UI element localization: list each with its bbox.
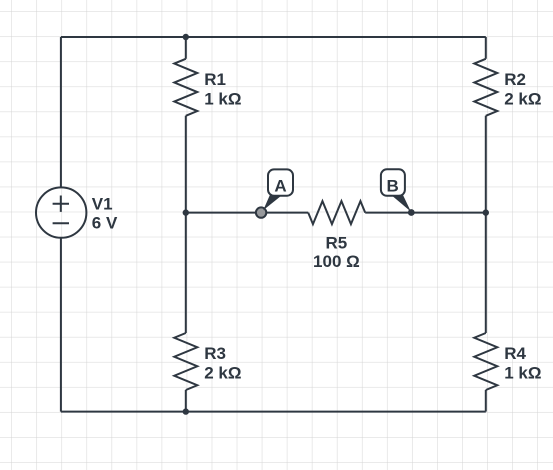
wire middle rail left segment (186, 212, 308, 214)
junction dot top (left branch / top rail) (183, 34, 189, 40)
node A callout box (268, 169, 293, 195)
svg-text:2 kΩ: 2 kΩ (504, 90, 541, 109)
resistor R5 (308, 201, 365, 224)
V1 minus sign (53, 222, 69, 224)
svg-text:1 kΩ: 1 kΩ (204, 90, 241, 109)
wire left branch lower lead R3 (185, 390, 187, 412)
resistor R3 (174, 333, 197, 390)
node B callout box (381, 169, 405, 196)
svg-text:R1: R1 (204, 70, 226, 89)
node A callout tail (263, 194, 282, 210)
node A marker (gray terminal dot) (256, 207, 266, 217)
svg-text:6 V: 6 V (92, 213, 118, 232)
junction dot bottom (left branch / bottom rail) (183, 408, 189, 414)
wire right branch middle (R2 to middle rail to R4) (485, 116, 487, 333)
node B callout tail (392, 195, 411, 212)
svg-text:100 Ω: 100 Ω (313, 252, 360, 271)
svg-text:B: B (387, 176, 399, 195)
wire right branch upper lead R2 (485, 37, 487, 59)
resistor R2 (474, 59, 497, 116)
wire left branch middle (R1 to middle rail to R3) (185, 116, 187, 333)
V1 plus sign (53, 196, 69, 212)
svg-text:R4: R4 (504, 344, 526, 363)
svg-text:1 kΩ: 1 kΩ (504, 364, 541, 383)
voltage source V1 circle (36, 187, 86, 237)
wire right branch lower lead R4 (485, 390, 487, 412)
svg-text:2 kΩ: 2 kΩ (204, 364, 241, 383)
svg-text:R3: R3 (204, 344, 226, 363)
wire top rail (61, 36, 486, 38)
junction dot middle-right (right branch / middle rail) (483, 209, 489, 215)
svg-text:R2: R2 (504, 70, 526, 89)
resistor R4 (474, 333, 497, 390)
resistor R1 (174, 59, 197, 116)
wire left lower (V1 bottom to bottom rail) (60, 238, 62, 412)
wire middle rail right segment (365, 212, 486, 214)
svg-text:V1: V1 (92, 195, 113, 214)
wire left upper (top rail to V1 top) (60, 37, 62, 187)
wire left branch upper lead R1 (185, 37, 187, 59)
svg-text:A: A (274, 176, 286, 195)
node B junction dot (408, 209, 415, 216)
junction dot middle-left (left branch / middle rail) (183, 209, 189, 215)
svg-text:R5: R5 (326, 234, 348, 253)
wire bottom rail (61, 411, 486, 413)
